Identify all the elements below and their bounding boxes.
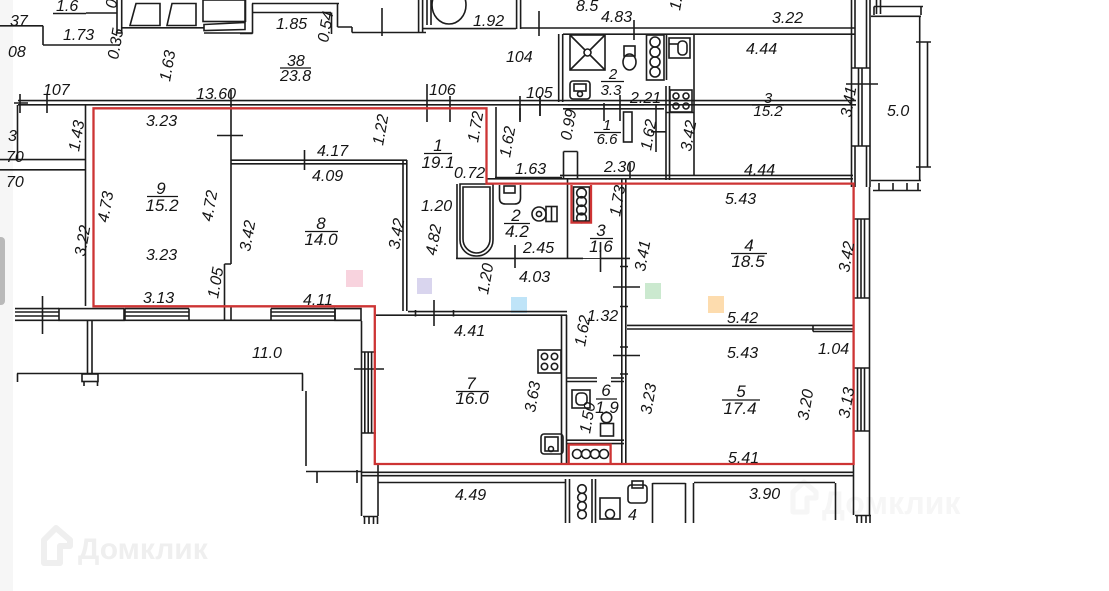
svg-text:5.0: 5.0 [887, 103, 909, 120]
svg-text:3.22: 3.22 [772, 10, 803, 27]
svg-text:70: 70 [6, 174, 24, 191]
svg-text:15.2: 15.2 [145, 196, 179, 215]
svg-text:3.23: 3.23 [146, 247, 177, 264]
svg-text:1.73: 1.73 [63, 27, 94, 44]
svg-text:2.45: 2.45 [522, 240, 554, 257]
svg-text:1.04: 1.04 [818, 341, 849, 358]
svg-text:1.20: 1.20 [421, 198, 452, 215]
svg-text:23.8: 23.8 [279, 68, 311, 85]
svg-text:5.43: 5.43 [725, 191, 756, 208]
svg-text:13.60: 13.60 [196, 86, 236, 103]
svg-text:3: 3 [8, 128, 17, 145]
svg-text:0.: 0. [103, 0, 122, 10]
svg-text:2.30: 2.30 [603, 159, 635, 176]
svg-text:17.4: 17.4 [723, 399, 756, 418]
svg-text:1.85: 1.85 [276, 16, 307, 33]
svg-text:6.6: 6.6 [597, 131, 619, 148]
svg-text:11.0: 11.0 [252, 345, 282, 362]
svg-text:8.5: 8.5 [576, 0, 598, 15]
svg-text:4.44: 4.44 [744, 162, 775, 179]
svg-text:3.23: 3.23 [146, 113, 177, 130]
svg-text:4.44: 4.44 [746, 41, 777, 58]
svg-text:4.17: 4.17 [317, 143, 349, 160]
svg-text:4.09: 4.09 [312, 168, 343, 185]
svg-text:4.83: 4.83 [601, 9, 632, 26]
svg-text:5.42: 5.42 [727, 310, 758, 327]
svg-text:1.6: 1.6 [56, 0, 78, 15]
svg-text:5.43: 5.43 [727, 345, 758, 362]
svg-text:5.41: 5.41 [728, 450, 759, 467]
svg-text:4.41: 4.41 [454, 323, 485, 340]
svg-text:Домклик: Домклик [822, 485, 961, 521]
svg-text:4.49: 4.49 [455, 487, 486, 504]
svg-text:1.9: 1.9 [595, 398, 619, 417]
svg-text:3.13: 3.13 [143, 290, 174, 307]
svg-text:106: 106 [429, 82, 456, 99]
svg-text:107: 107 [43, 82, 71, 99]
svg-text:4.2: 4.2 [505, 222, 529, 241]
svg-text:18.5: 18.5 [731, 252, 765, 271]
svg-text:1.63: 1.63 [515, 161, 546, 178]
svg-text:105: 105 [526, 85, 553, 102]
svg-text:37: 37 [10, 13, 29, 30]
svg-text:2.21: 2.21 [629, 90, 661, 107]
svg-text:4.11: 4.11 [303, 292, 333, 309]
svg-text:2: 2 [608, 66, 618, 83]
svg-text:4.03: 4.03 [519, 269, 550, 286]
svg-text:4: 4 [628, 507, 637, 524]
svg-text:1.6: 1.6 [589, 237, 613, 256]
svg-text:14.0: 14.0 [304, 230, 338, 249]
svg-text:1.92: 1.92 [473, 13, 504, 30]
svg-text:08: 08 [8, 44, 26, 61]
svg-text:0.72: 0.72 [454, 165, 485, 182]
svg-text:70: 70 [6, 149, 24, 166]
svg-text:104: 104 [506, 49, 533, 66]
svg-text:Домклик: Домклик [78, 533, 209, 566]
svg-text:3.90: 3.90 [749, 486, 780, 503]
svg-text:3.3: 3.3 [601, 82, 623, 99]
svg-text:19.1: 19.1 [421, 153, 454, 172]
